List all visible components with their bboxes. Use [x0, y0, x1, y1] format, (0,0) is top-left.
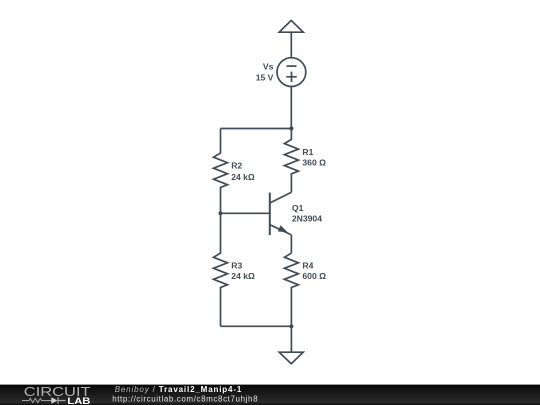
transistor Q1 base bar	[269, 193, 271, 235]
wire base horizontal	[221, 212, 270, 214]
svg-text:http://circuitlab.com/c8mc8ct7: http://circuitlab.com/c8mc8ct7uhjh8	[112, 394, 258, 403]
svg-text:15 V: 15 V	[256, 72, 274, 82]
resistor R4	[284, 253, 298, 326]
resistor R2	[214, 129, 228, 214]
transistor Q1 emitter arrow	[278, 225, 288, 232]
svg-text:360 Ω: 360 Ω	[302, 158, 326, 168]
wire node to ground	[290, 326, 292, 352]
wire emitter to R4	[290, 235, 292, 253]
voltage source minus sign	[287, 65, 297, 67]
svg-text:Vs: Vs	[263, 62, 274, 72]
node junction bottom	[289, 324, 293, 328]
power node arrow (Vs top terminal)	[279, 20, 303, 32]
svg-text:R3: R3	[231, 260, 242, 270]
svg-text:2N3904: 2N3904	[292, 214, 322, 224]
svg-text:LAB: LAB	[67, 396, 90, 405]
svg-text:600 Ω: 600 Ω	[302, 271, 326, 281]
wire bottom horizontal	[221, 325, 292, 327]
voltage source plus sign	[286, 72, 296, 82]
svg-text:24 kΩ: 24 kΩ	[231, 271, 255, 281]
svg-text:R4: R4	[302, 260, 313, 270]
wire arrow to source	[290, 32, 292, 58]
svg-text:R2: R2	[231, 161, 242, 171]
footer bar	[0, 385, 540, 405]
svg-text:24 kΩ: 24 kΩ	[231, 172, 255, 182]
voltage source Vs circle	[277, 58, 306, 87]
node junction top	[289, 126, 293, 130]
CircuitLab logo diode	[51, 397, 57, 403]
svg-text:R1: R1	[302, 147, 313, 157]
resistor R3	[214, 213, 228, 326]
svg-text:Q1: Q1	[292, 203, 304, 213]
ground symbol	[279, 352, 303, 364]
resistor R1	[284, 129, 298, 193]
CircuitLab logo schematic line with resistor	[22, 398, 51, 402]
wire top horizontal	[221, 128, 292, 130]
transistor Q1 collector	[270, 192, 292, 203]
node junction base	[218, 211, 222, 215]
transistor Q1 emitter	[270, 225, 292, 235]
svg-text:Beniboy / Travail2_Manip4-1: Beniboy / Travail2_Manip4-1	[115, 385, 242, 394]
wire source to top node	[290, 87, 292, 129]
